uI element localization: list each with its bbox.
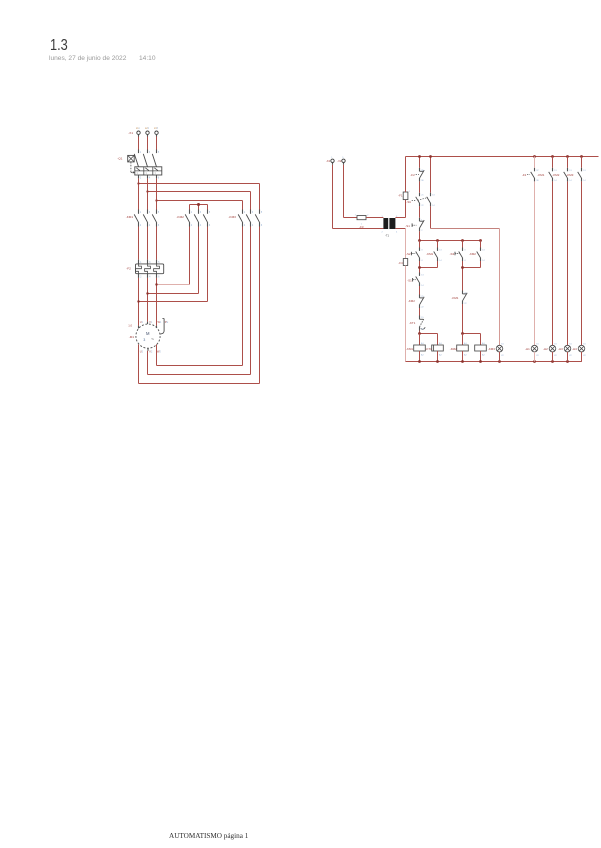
- contactor KM2: [185, 210, 207, 227]
- lamp -H4 bottom wire: [581, 352, 583, 362]
- svg-text:1: 1: [140, 212, 142, 214]
- auxiliary contact -KM2 for lamp: [567, 168, 569, 171]
- svg-text:3: 3: [200, 212, 202, 214]
- svg-text:14: 14: [583, 180, 586, 182]
- wire to KM2 interlock: [419, 286, 421, 295]
- svg-text:A1: A1: [439, 342, 442, 345]
- wire contact to lamp -H4: [581, 181, 583, 345]
- svg-text:14: 14: [554, 180, 557, 182]
- svg-text:L11: L11: [136, 127, 140, 130]
- svg-text:14: 14: [439, 260, 442, 262]
- auxiliary contact -F2 for lamp: [534, 168, 536, 171]
- svg-text:U1: U1: [140, 320, 144, 324]
- svg-text:13: 13: [554, 170, 557, 172]
- wire secondary bottom to left rail: [395, 228, 405, 230]
- wire top bus to selector right contact: [430, 157, 432, 193]
- svg-text:21: 21: [421, 195, 424, 197]
- svg-text:14: 14: [432, 205, 435, 207]
- svg-text:-F4: -F4: [398, 261, 403, 265]
- svg-text:-KM3: -KM3: [566, 173, 573, 177]
- junction top bus at selector: [429, 155, 432, 158]
- svg-text:X1: X1: [501, 343, 504, 345]
- svg-text:13: 13: [583, 170, 586, 172]
- lamp H1 bottom wire: [499, 352, 501, 362]
- svg-text:-S1: -S1: [405, 224, 410, 228]
- coil branch left: [420, 333, 438, 335]
- svg-text:-X1: -X1: [128, 131, 133, 135]
- svg-text:-T1: -T1: [385, 233, 390, 237]
- svg-text:3: 3: [252, 212, 254, 214]
- wire contact to lamp -H3: [567, 181, 569, 345]
- svg-text:3: 3: [464, 249, 466, 251]
- svg-text:M: M: [146, 331, 150, 336]
- svg-text:1: 1: [331, 157, 333, 159]
- svg-text:4: 4: [464, 260, 466, 262]
- svg-text:1: 1: [355, 215, 357, 217]
- lamp -H2 bottom wire: [552, 352, 554, 362]
- svg-text:-KM1: -KM1: [406, 347, 413, 351]
- wire KT1 contact to coil bus: [419, 331, 421, 334]
- svg-text:-M1: -M1: [129, 335, 135, 339]
- junctions on bottom rail: [418, 360, 421, 363]
- wire motor V2 down: [147, 351, 149, 375]
- svg-text:3: 3: [421, 249, 423, 251]
- svg-text:13: 13: [569, 170, 572, 172]
- lamp -H3 bottom wire: [567, 352, 569, 362]
- wire motor U2 down: [138, 345, 140, 384]
- wire U2 loop to KM3 pole 6: [139, 383, 260, 385]
- control terminal -X2:1: [331, 159, 334, 162]
- svg-text:-H2: -H2: [543, 347, 548, 351]
- seal-in merge left rung: [419, 261, 421, 273]
- svg-text:3: 3: [149, 212, 151, 214]
- wire terminal to fuse F3: [343, 165, 345, 218]
- junction V1 node: [146, 292, 148, 294]
- svg-text:-X2: -X2: [326, 159, 331, 163]
- svg-text:X1: X1: [569, 343, 572, 345]
- transformer T1 secondary winding: [389, 218, 395, 229]
- wire to KT1 timed contact: [419, 308, 421, 316]
- coil bottom wires to rail: [419, 351, 421, 362]
- wire top bus to F2 NC contact: [419, 157, 421, 168]
- time: [139, 55, 156, 62]
- terminal -X1:1: [137, 131, 140, 134]
- svg-text:6: 6: [158, 178, 160, 180]
- wire contact to lamp -H2: [552, 181, 554, 345]
- svg-text:-KT1: -KT1: [426, 347, 433, 351]
- svg-text:2: 2: [191, 225, 193, 227]
- S1 second actuator: [412, 278, 414, 282]
- svg-text:2: 2: [367, 215, 369, 217]
- auxiliary contact -KM3 for lamp: [581, 168, 583, 171]
- wire breaker to KM1 phase L3: [156, 179, 158, 210]
- wire top bus to contact -KM2: [567, 157, 569, 168]
- svg-text:-S1: -S1: [406, 200, 411, 204]
- svg-text:14: 14: [421, 285, 424, 287]
- svg-text:-KM2: -KM2: [408, 299, 415, 303]
- wire F2 to selector S1: [419, 181, 421, 192]
- stop pushbutton S0 NC: [419, 218, 421, 221]
- svg-text:-Q1: -Q1: [117, 156, 122, 160]
- indicator lamp -H4: [578, 345, 585, 352]
- wire motor W2 down: [156, 345, 158, 366]
- start pushbutton S2 NO: [419, 248, 421, 251]
- svg-text:5: 5: [158, 152, 160, 154]
- svg-text:-F1: -F1: [398, 194, 403, 198]
- transformer T1 primary winding: [383, 218, 388, 229]
- wire L2 terminal to breaker: [147, 137, 149, 150]
- contactor KM3: [238, 210, 259, 227]
- svg-text:-H1: -H1: [525, 347, 530, 351]
- start branch bus: [420, 240, 481, 242]
- junction top bus column 3: [566, 155, 569, 158]
- wire top bus to contact -KM1: [552, 157, 554, 168]
- svg-text:2: 2: [244, 225, 246, 227]
- wire KM2 pole3 down: [207, 227, 209, 302]
- wire KM2 pole3 to U1 node: [139, 301, 208, 303]
- svg-text:X2: X2: [569, 355, 572, 357]
- wire selector to stop button: [419, 206, 421, 218]
- svg-text:13: 13: [432, 195, 435, 197]
- thermal overload relay F2: [136, 260, 164, 278]
- svg-text:X2: X2: [554, 355, 557, 357]
- contactor coil KM1: [414, 345, 426, 351]
- svg-text:4: 4: [421, 260, 423, 262]
- junction top bus column 1: [533, 155, 536, 158]
- KM2 auxiliary contact NO 13-14: [480, 248, 482, 251]
- KT1 timed NC contact: [419, 316, 421, 320]
- svg-text:-F3: -F3: [359, 225, 364, 229]
- svg-text:4: 4: [252, 225, 254, 227]
- motor M1 three-phase: [136, 324, 160, 351]
- wire to KM2 aux contact: [480, 241, 482, 248]
- control top bus: [406, 156, 599, 158]
- indicator lamp -H3: [564, 345, 571, 352]
- svg-text:PE: PE: [165, 320, 169, 324]
- svg-text:V1: V1: [149, 320, 153, 324]
- svg-text:X1: X1: [536, 343, 539, 345]
- junctions on start bus: [418, 239, 421, 242]
- fuse F3: [357, 216, 366, 220]
- svg-text:L22: L22: [145, 127, 150, 130]
- svg-text:A2: A2: [482, 354, 485, 357]
- page title: [50, 37, 68, 55]
- terminal -X1:3: [155, 131, 158, 134]
- svg-text:-KM2: -KM2: [176, 215, 184, 219]
- svg-text:6: 6: [261, 225, 263, 227]
- svg-text:-KM1: -KM1: [537, 173, 544, 177]
- junction L2 bus: [146, 190, 148, 192]
- svg-text:98: 98: [536, 180, 539, 182]
- contactor coil KM3: [475, 345, 487, 351]
- junction W1 node: [155, 283, 157, 285]
- junction L3 bus: [155, 199, 157, 201]
- wire to KM1 aux contact: [437, 241, 439, 248]
- auxiliary contact -KM1 for lamp: [552, 168, 554, 171]
- svg-text:2: 2: [140, 178, 142, 180]
- svg-text:-KM1: -KM1: [451, 296, 458, 300]
- wire contact to lamp -H1: [534, 181, 536, 345]
- thermal relay NC contact F2 95-96: [419, 168, 421, 171]
- svg-text:-F2: -F2: [126, 267, 131, 271]
- bus wire L3 to KM3 pole 1: [157, 200, 243, 202]
- svg-text:X1: X1: [554, 343, 557, 345]
- wire top bus to contact -F2: [534, 157, 536, 168]
- svg-text:1: 1: [244, 212, 246, 214]
- svg-text:V2: V2: [149, 350, 153, 354]
- svg-text:6: 6: [209, 225, 211, 227]
- wire fuse F3 to transformer: [366, 217, 383, 219]
- svg-text:15: 15: [421, 317, 424, 319]
- KM1 auxiliary contact NO 13-14: [437, 248, 439, 251]
- motor circuit breaker Q1: [134, 150, 162, 179]
- junction U1 node: [137, 300, 139, 302]
- KM2 star bridge wire: [190, 204, 208, 206]
- selector switch S1 left contact: [419, 193, 421, 196]
- indicator lamp -H2: [549, 345, 556, 352]
- wire breaker to KM1 phase L2: [147, 179, 149, 210]
- wire secondary top to fuse F1: [395, 217, 405, 219]
- junction top bus column 2: [551, 155, 554, 158]
- wire KM2 pole1 to W1 node: [157, 284, 190, 286]
- svg-text:-H4: -H4: [572, 347, 577, 351]
- wire stop to start bus: [419, 231, 421, 240]
- svg-text:13: 13: [482, 249, 485, 251]
- svg-text:U2: U2: [140, 350, 144, 354]
- seal-in merge right rung: [462, 261, 464, 291]
- fuse F4 on left rail: [403, 259, 407, 266]
- lamp -H1 bottom wire: [534, 352, 536, 362]
- wire relay to motor W1: [156, 278, 158, 326]
- svg-text:-KM2: -KM2: [450, 347, 457, 351]
- svg-text:-KM1: -KM1: [126, 215, 134, 219]
- svg-text:2: 2: [381, 231, 383, 233]
- wire to start button S2: [419, 241, 421, 248]
- svg-text:6: 6: [158, 277, 160, 279]
- svg-text:13: 13: [421, 275, 424, 277]
- svg-text:14: 14: [569, 180, 572, 182]
- junction L1 bus: [137, 182, 139, 184]
- svg-text:4: 4: [149, 178, 151, 180]
- bus wire L2 to KM3 pole 3: [148, 191, 251, 193]
- bus wire L1 to KM3 pole 5: [139, 183, 260, 185]
- left rail upper: [405, 229, 407, 259]
- contactor coil KM2: [457, 345, 469, 351]
- footer: [169, 832, 248, 840]
- svg-text:A1: A1: [464, 342, 467, 345]
- wire relay to motor V1: [147, 278, 149, 322]
- junction KM2 bridge: [197, 203, 200, 206]
- svg-text:A1: A1: [482, 342, 485, 345]
- wire L1 terminal to breaker: [138, 137, 140, 150]
- wire KM2 pole2 to V1 node: [148, 293, 199, 295]
- selector switch S1 right contact: [430, 193, 432, 196]
- contactor KM1: [134, 210, 156, 227]
- svg-text:X2: X2: [583, 355, 586, 357]
- svg-text:4: 4: [149, 225, 151, 227]
- breaker trip unit box with cross: [128, 155, 135, 162]
- junction top bus column 4: [580, 155, 583, 158]
- S1 mechanical link dashed: [418, 198, 428, 201]
- svg-text:A2: A2: [439, 354, 442, 357]
- date line: [49, 55, 126, 62]
- svg-text:4: 4: [149, 277, 151, 279]
- wire fuse F1 to top bus: [405, 157, 407, 193]
- svg-text:2: 2: [140, 225, 142, 227]
- svg-text:4: 4: [200, 225, 202, 227]
- junction top bus at main rung: [418, 155, 421, 158]
- trip linkage dashed line with arrow: [131, 162, 135, 174]
- start pushbutton S3 NO: [462, 248, 464, 251]
- svg-text:2: 2: [421, 230, 423, 232]
- svg-text:-KM2: -KM2: [469, 252, 476, 256]
- svg-text:2: 2: [140, 277, 142, 279]
- svg-text:X2: X2: [536, 355, 539, 357]
- control terminal -X2:2: [342, 159, 345, 162]
- wire W2 loop to KM3 pole 2: [157, 365, 243, 367]
- svg-text:-F2: -F2: [522, 173, 527, 177]
- svg-text:A1: A1: [421, 342, 424, 345]
- svg-text:5: 5: [158, 212, 160, 214]
- svg-text:W2: W2: [157, 350, 161, 354]
- svg-text:5: 5: [209, 212, 211, 214]
- svg-text:A2: A2: [464, 354, 467, 357]
- S2 actuator: [410, 252, 412, 256]
- KM2 NC interlock contact: [419, 295, 421, 298]
- svg-text:97: 97: [536, 170, 539, 172]
- svg-text:22: 22: [464, 303, 467, 305]
- wire breaker to KM1 phase L1: [138, 179, 140, 210]
- svg-text:L33: L33: [154, 127, 159, 130]
- svg-text:-KM1: -KM1: [426, 252, 433, 256]
- svg-text:5: 5: [342, 157, 344, 159]
- PE conductor into motor: [160, 319, 164, 335]
- wire KM2 pole2 down: [198, 227, 200, 294]
- fuse F1: [403, 192, 408, 200]
- wires KM1 to overload relay: [138, 227, 140, 260]
- wire KM2 pole1 down: [189, 227, 191, 285]
- svg-text:W1: W1: [157, 320, 161, 324]
- svg-text:-KM3: -KM3: [488, 347, 495, 351]
- svg-text:-KM2: -KM2: [552, 173, 559, 177]
- S3 actuator: [454, 252, 456, 256]
- wire selector branch to lamp H1: [430, 206, 432, 228]
- svg-text:5: 5: [261, 212, 263, 214]
- svg-text:X1: X1: [583, 343, 586, 345]
- terminal -X1:2: [146, 131, 149, 134]
- wire terminal to transformer primary bottom: [332, 165, 334, 229]
- svg-text:3: 3: [149, 152, 151, 154]
- indicator lamp H1: [496, 345, 503, 352]
- svg-text:-H3: -H3: [558, 347, 563, 351]
- svg-text:-S1: -S1: [407, 279, 412, 283]
- svg-text:-S2: -S2: [406, 252, 411, 256]
- svg-text:96: 96: [421, 180, 424, 182]
- svg-text:13: 13: [439, 249, 442, 251]
- svg-text:6: 6: [158, 225, 160, 227]
- svg-text:1: 1: [409, 191, 411, 193]
- KM1 NC interlock on right rung: [462, 291, 464, 294]
- svg-text:-S3: -S3: [450, 252, 455, 256]
- svg-text:14: 14: [482, 260, 485, 262]
- svg-text:A2: A2: [421, 354, 424, 357]
- control bottom rail: [406, 361, 582, 363]
- wire relay to motor U1: [138, 278, 140, 326]
- svg-text:1: 1: [191, 212, 193, 214]
- svg-text:1.0: 1.0: [128, 324, 132, 328]
- wire KM1 interlock down: [462, 304, 464, 334]
- wire top bus to contact -KM3: [581, 157, 583, 168]
- wire L3 terminal to breaker: [156, 137, 158, 150]
- svg-text:-F2: -F2: [410, 173, 415, 177]
- svg-text:X2: X2: [501, 355, 504, 357]
- stop button actuator: [411, 223, 413, 227]
- wire V2 loop to KM3 pole 4: [148, 374, 251, 376]
- coil branch right: [463, 333, 481, 335]
- svg-text:3: 3: [143, 338, 145, 342]
- svg-text:-KT1: -KT1: [409, 321, 416, 325]
- svg-text:~: ~: [151, 337, 154, 343]
- selector second contact S1 NO: [419, 273, 421, 276]
- svg-text:-KM3: -KM3: [228, 215, 236, 219]
- left rail lower: [405, 266, 407, 362]
- svg-text:22: 22: [421, 306, 424, 308]
- svg-text:-X2: -X2: [337, 159, 342, 163]
- svg-text:1: 1: [140, 152, 142, 154]
- svg-text:4: 4: [396, 231, 398, 233]
- wire to start button S3: [462, 241, 464, 248]
- indicator lamp -H1: [531, 345, 538, 352]
- timer relay coil KT1: [432, 345, 444, 351]
- svg-text:22: 22: [421, 205, 424, 207]
